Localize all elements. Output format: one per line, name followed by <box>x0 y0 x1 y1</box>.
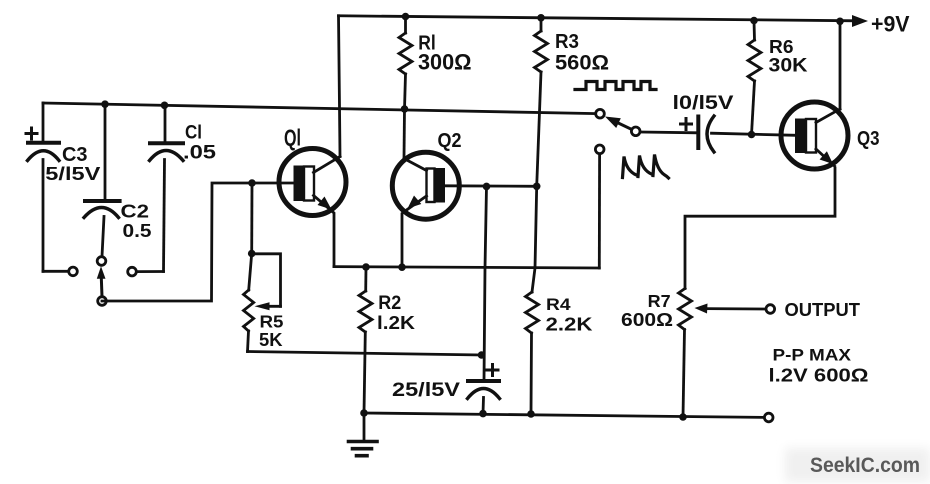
junction R1 top on +9V rail <box>402 13 410 21</box>
svg-text:R5: R5 <box>260 312 284 332</box>
svg-text:25/l5V: 25/l5V <box>392 379 460 401</box>
svg-text:C2: C2 <box>121 201 150 222</box>
wire: +9V top rail <box>339 16 857 21</box>
ground <box>349 413 378 456</box>
+9V arrowhead <box>852 15 868 27</box>
selector wiper pole terminal <box>98 297 107 306</box>
resistor R3 <box>535 17 548 186</box>
selector left contact terminal <box>69 267 78 276</box>
wire: wiper pole to Q1 base (down-right-up path) <box>102 183 252 301</box>
junction bottom rail / R2 <box>360 409 368 417</box>
wire: Q2 base to divider <box>445 184 537 187</box>
svg-text:2.2K: 2.2K <box>546 314 594 335</box>
svg-text:Q2: Q2 <box>438 130 462 152</box>
svg-text:R3: R3 <box>555 30 579 53</box>
junction rail2/C2 <box>101 100 109 108</box>
svg-text:OUTPUT: OUTPUT <box>785 299 861 320</box>
R7 wiper arrow and OUTPUT wire <box>695 304 767 314</box>
watermark background tint <box>785 448 930 482</box>
svg-text:600Ω: 600Ω <box>621 309 673 330</box>
selector wiper arm with arrow <box>97 266 106 296</box>
wire: C3 branch to selector left contact <box>43 270 69 273</box>
wire: base junction down to R5 <box>250 183 253 254</box>
bottom rail end terminal <box>764 413 773 422</box>
svg-text:Cl: Cl <box>185 123 202 144</box>
wire: emitter rail Q1/Q2 to sawtooth contact <box>334 267 599 268</box>
wire: R5 wiper link (right and down) <box>252 254 281 306</box>
capacitor C3 <box>28 103 60 271</box>
svg-text:30K: 30K <box>769 56 808 77</box>
resistor R6 <box>748 21 761 135</box>
wire: blade pivot to 10/15V cap <box>641 131 697 135</box>
wire: Q1 base segment <box>252 182 294 185</box>
svg-text:5/l5V: 5/l5V <box>45 164 100 184</box>
svg-text:+9V: +9V <box>871 11 910 36</box>
switch contact from rail2 <box>596 109 605 118</box>
OUTPUT terminal <box>766 305 775 314</box>
junction bottom rail / R4 <box>527 410 535 418</box>
resistor R4 <box>526 186 539 414</box>
transistor Q1 <box>279 149 346 216</box>
wire: R5 bottom to 25/15V cap node <box>248 352 482 356</box>
svg-text:5K: 5K <box>259 330 283 350</box>
svg-text:l.2V 600Ω: l.2V 600Ω <box>769 365 869 386</box>
selector top contact terminal (from C2) <box>97 257 106 266</box>
square wave symbol <box>575 82 656 90</box>
wire: Q2 collector vertical to R1 node <box>403 109 406 159</box>
svg-text:l.2K: l.2K <box>377 312 416 333</box>
junction R5 top node <box>248 250 256 258</box>
junction Q3 collector on +9V rail <box>836 18 844 26</box>
svg-text:SeekIC.com: SeekIC.com <box>810 454 920 477</box>
capacitor 10/15V <box>698 116 714 152</box>
svg-text:Q3: Q3 <box>857 128 880 150</box>
wire: cap to Q3 base <box>712 133 796 135</box>
capacitor C1 <box>150 105 184 271</box>
sawtooth symbol <box>623 155 669 179</box>
R5 wiper arrow <box>255 302 281 310</box>
transistor Q3 <box>781 102 848 169</box>
selector right contact terminal <box>128 267 137 276</box>
junction Q2 base / 25-15V cap <box>483 183 491 191</box>
capacitor 25/15V <box>468 381 500 414</box>
svg-text:.05: .05 <box>183 142 216 164</box>
wire: Q3 collector vertical to +9V rail <box>839 21 842 109</box>
transistor Q2 (mirrored) <box>392 152 459 219</box>
wire: Q3 emitter down and left to R7 <box>685 168 835 289</box>
wire: ground bottom rail <box>364 413 764 417</box>
capacitor C2 <box>84 104 120 256</box>
25/15V polarity plus <box>487 365 498 376</box>
wire: Q2 emitter vertical <box>401 214 404 267</box>
svg-text:l0/l5V: l0/l5V <box>673 93 734 114</box>
svg-text:300Ω: 300Ω <box>418 50 472 75</box>
potentiometer R5 <box>244 254 254 352</box>
svg-text:Ql: Ql <box>284 125 301 151</box>
switch blade with arrow <box>605 117 634 131</box>
svg-text:P-P MAX: P-P MAX <box>773 346 852 365</box>
wire: Q2 base node down to 25/15V cap <box>484 186 487 381</box>
junction Q1 base / R5 tap <box>248 179 256 187</box>
svg-text:R6: R6 <box>769 36 794 57</box>
10/15V polarity plus <box>681 119 692 130</box>
svg-text:0.5: 0.5 <box>123 220 152 241</box>
junction emitter rail / Q2 emitter <box>398 263 406 271</box>
svg-text:560Ω: 560Ω <box>555 52 609 75</box>
svg-text:C3: C3 <box>62 144 88 166</box>
junction bottom rail / R7 <box>679 413 687 421</box>
svg-text:R7: R7 <box>648 291 671 311</box>
potentiometer R7 <box>679 289 692 418</box>
wire: emitter rail riser to sawtooth input terminal <box>598 154 601 268</box>
resistor R2 <box>359 267 372 413</box>
junction rail2/R1/Q2 collector <box>401 105 409 113</box>
junction rail2/C1 <box>161 102 169 110</box>
sawtooth input terminal <box>595 145 604 154</box>
junction Q2 base / R3 R4 <box>533 183 541 191</box>
junction bottom rail / cap <box>479 410 487 418</box>
junction emitter rail / R2 <box>362 263 370 271</box>
wire: Q1 collector vertical to +9V rail <box>339 16 341 157</box>
junction R6 / cap / Q3 base <box>748 131 756 139</box>
wire: selector right contact to C1 <box>137 270 164 273</box>
C3 polarity plus <box>26 128 37 139</box>
wire: Q1 emitter vertical <box>333 214 336 267</box>
wire: second horizontal rail (R1/C1/C2/C3 bus to switch) <box>43 103 596 114</box>
svg-text:R2: R2 <box>378 293 401 314</box>
junction R3 top on +9V rail <box>537 14 545 22</box>
junction R6 top on +9V rail <box>750 17 758 25</box>
junction R5 wire / cap top <box>478 351 486 359</box>
switch blade pivot terminal <box>631 127 640 136</box>
resistor R1 <box>399 16 412 109</box>
svg-text:R4: R4 <box>546 295 571 314</box>
